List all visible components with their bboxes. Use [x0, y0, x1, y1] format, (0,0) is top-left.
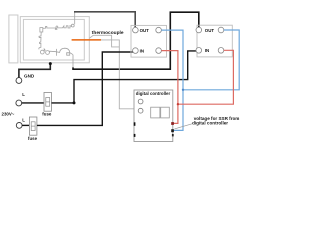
oven outer wall: [20, 17, 89, 63]
SSR1 IN terminal: [133, 48, 139, 54]
svg-text:thermocouple: thermocouple: [92, 30, 124, 36]
svg-text:digital controller: digital controller: [192, 121, 228, 126]
SSR2 OUT label: [205, 28, 215, 33]
fuse F1 L terminal: [16, 100, 22, 106]
svg-text:230V~: 230V~: [2, 112, 15, 117]
svg-text:L: L: [22, 118, 25, 123]
fuse F2 L terminal: [16, 123, 22, 129]
fuse F1 body: [44, 93, 52, 112]
wire L1 to fuse F1: [22, 102, 44, 104]
wire element bottom lead to SSR2 OUT (black): [73, 12, 199, 69]
svg-text:GND: GND: [24, 73, 35, 78]
wire fuse F1 to SSR2 IN (black): [52, 51, 197, 105]
controller left edge tick 1: [134, 122, 136, 126]
230V label: [2, 112, 15, 117]
svg-text:digital controller: digital controller: [136, 91, 171, 96]
wire SSR2 control - (red): [177, 50, 234, 105]
fuse F1 L label: [22, 92, 25, 97]
fuse F2 L label: [22, 118, 25, 123]
oven left slab: [9, 15, 18, 63]
oven inner wall: [23, 19, 84, 60]
controller left edge tick 2: [134, 134, 136, 137]
controller right edge tick: [172, 134, 174, 136]
GND wire: [19, 62, 52, 78]
digital controller box: [134, 90, 173, 142]
thermocouple lead B (gray) to controller circle 2: [89, 35, 119, 47]
svg-text:OUT: OUT: [140, 28, 150, 33]
thermocouple lead A (gray) to controller circle 1: [101, 40, 134, 109]
SSR2 bottom-right terminal: [218, 48, 224, 54]
thermocouple label: [92, 30, 124, 36]
SSR1 box: [131, 25, 167, 57]
controller display window 2: [161, 107, 170, 118]
controller SSR+ terminal (red end): [171, 122, 174, 125]
heating element: [39, 13, 75, 68]
wire fuse F2 to SSR1 IN (black): [37, 52, 133, 125]
fuse F2 label: [28, 136, 38, 141]
controller TC terminal 2: [138, 108, 143, 113]
SSR2 box: [197, 25, 232, 57]
SSR2 IN label: [205, 48, 209, 53]
svg-text:fuse: fuse: [42, 112, 52, 117]
SSR1 top-right terminal: [156, 27, 162, 33]
fuse F1 label: [42, 112, 52, 117]
SSR2 IN terminal: [196, 48, 202, 54]
digital controller label: [136, 91, 171, 96]
wire SSR1 control + (blue): [161, 30, 183, 130]
SSR1 bottom-right terminal: [156, 48, 162, 54]
controller SSR- terminal (blue end): [171, 129, 174, 132]
fuse F2 body: [29, 117, 37, 135]
wire SSR2 control + (blue): [182, 30, 239, 91]
controller display window 1: [151, 107, 160, 118]
wire element top lead to SSR1 OUT (thick dark gray): [74, 12, 135, 30]
controller TC terminal 1: [138, 99, 143, 104]
GND terminal circle: [16, 78, 22, 84]
svg-text:IN: IN: [140, 49, 144, 54]
svg-text:OUT: OUT: [205, 28, 215, 33]
svg-text:fuse: fuse: [28, 136, 38, 141]
svg-text:IN: IN: [205, 48, 209, 53]
SSR1 IN label: [140, 49, 144, 54]
wire L2 to fuse F2: [22, 124, 29, 126]
annotation pointer line: [175, 124, 193, 129]
SSR1 OUT terminal: [133, 27, 139, 33]
SSR2 OUT terminal: [196, 27, 202, 33]
annotation text: voltage for SSR from digital controller: [192, 116, 239, 126]
SSR2 top-right terminal: [218, 27, 224, 33]
thermocouple (orange probe): [72, 39, 101, 41]
GND label: [24, 73, 35, 78]
SSR1 OUT label: [140, 28, 150, 33]
wire SSR1 control - (red): [161, 51, 178, 124]
svg-text:L: L: [22, 92, 25, 97]
